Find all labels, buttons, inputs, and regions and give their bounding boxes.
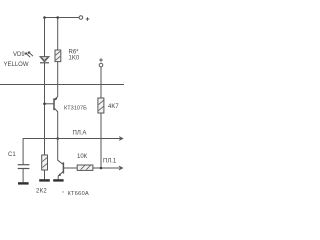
wire KT3107B bottom lead down to PL.A node	[57, 112, 59, 139]
resistor R6 power-rating slashes	[56, 51, 61, 60]
resistor 10K power-rating slashes	[81, 165, 91, 169]
stray scan speck	[62, 191, 63, 192]
svg-text:КТ660А: КТ660А	[68, 191, 90, 197]
resistor R6 body	[55, 50, 61, 62]
node junction base of KT3107B on LED column	[43, 103, 46, 106]
wire 2K2 bottom lead	[44, 170, 46, 179]
resistor 10K body (horizontal)	[77, 165, 93, 170]
capacitor C1 plates	[18, 164, 30, 166]
resistor 4K7 power-rating slashes	[99, 100, 104, 110]
wire net PL.1 from 10K to right arrow	[93, 167, 122, 169]
wire long horizontal net (full width)	[0, 84, 124, 86]
svg-text:1K0: 1K0	[69, 56, 80, 62]
svg-text:10К: 10К	[77, 154, 88, 160]
transistor Q2 KT660A collector diagonal	[58, 160, 63, 164]
transistor Q2 KT660A emitter diagonal (arrow out)	[58, 172, 63, 176]
LED emission arrows of VD9	[25, 52, 33, 57]
wire LED column from rail to VD9 anode	[44, 18, 46, 57]
node junction PL.1 / 4K7 column	[100, 167, 103, 170]
svg-text:C1: C1	[8, 152, 16, 158]
ground C1	[18, 182, 29, 184]
svg-text:ПЛ.А: ПЛ.А	[73, 131, 87, 137]
ground 2K2	[39, 179, 50, 181]
transistor Q1 KT3107B base bar	[53, 98, 55, 110]
svg-text:2К2: 2К2	[36, 189, 47, 195]
label + (top supply polarity)	[86, 18, 90, 20]
svg-text:КТ3107Б: КТ3107Б	[64, 106, 87, 112]
wire C1 bottom lead	[22, 169, 24, 182]
wire R6 column from rail to R6	[57, 18, 59, 51]
svg-text:ПЛ.1: ПЛ.1	[103, 159, 117, 165]
ground KT660A emitter	[53, 179, 63, 181]
wire net PL.A horizontal line with right arrow	[23, 138, 122, 140]
wire R6 bottom to KT3107B top lead	[57, 62, 59, 97]
svg-text:4K7: 4K7	[108, 104, 119, 110]
wire top supply rail	[45, 17, 80, 19]
node junction top rail / R6 column	[56, 16, 59, 19]
terminal + supply (top right open circle)	[79, 16, 83, 20]
wire KT660A emitter lead	[57, 176, 59, 180]
label + (right supply polarity)	[99, 59, 103, 61]
transistor Q2 KT660A base bar	[62, 162, 64, 173]
node junction top rail / LED column	[43, 16, 46, 19]
diode VD9 cathode bar	[40, 62, 49, 64]
wire right column from 4K7 down to PL.1 junction	[100, 113, 102, 168]
resistor 4K7 body	[98, 98, 104, 113]
wire C1 drop from PL.A corner	[22, 139, 24, 165]
terminal + supply (right, open circle)	[99, 63, 103, 67]
wire LED column: VD9 cathode down to 2K2 (through crossings)	[44, 63, 46, 155]
transistor Q1 KT3107B base wire	[45, 103, 54, 105]
diode LED VD9 (triangle)	[40, 57, 49, 62]
transistor Q1 KT3107B emitter (top, arrow into base)	[54, 96, 58, 100]
transistor Q1 KT3107B collector (bottom)	[54, 108, 58, 112]
wire KT660A collector from PL.A node	[57, 139, 59, 161]
resistor 2K2 body	[42, 155, 48, 170]
svg-text:YELLOW: YELLOW	[4, 62, 29, 68]
transistor Q2 KT660A base wire to 10K	[63, 167, 77, 169]
wire right column from terminal to R-4K7	[100, 67, 102, 98]
svg-text:VD9: VD9	[13, 52, 25, 58]
node junction PL.A line / transistor column	[56, 137, 59, 140]
resistor 2K2 power-rating slashes	[42, 157, 47, 167]
